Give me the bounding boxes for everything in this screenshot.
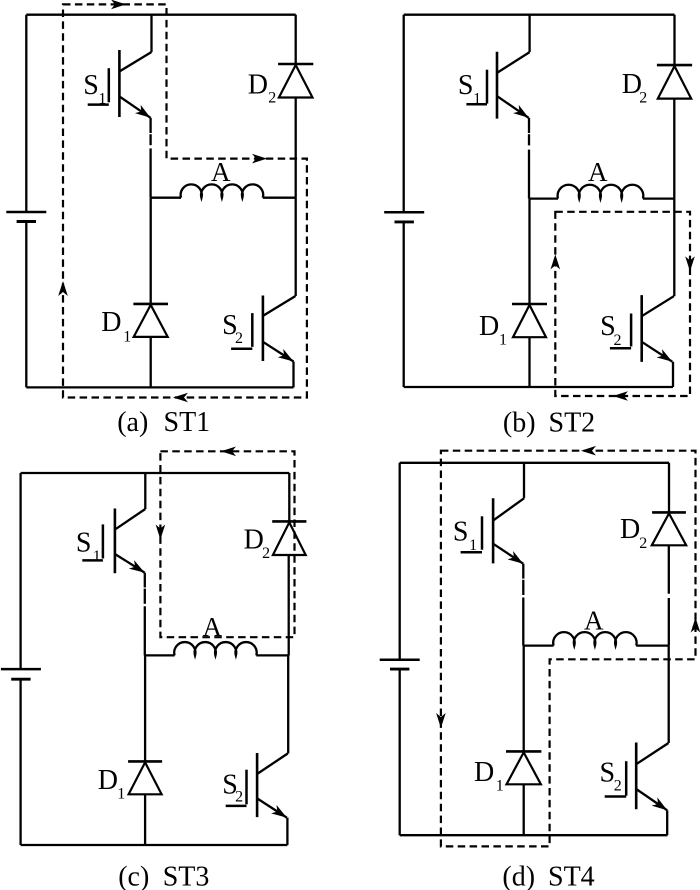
- node wire right (d): [636, 644, 669, 646]
- transistor S2 (c): [256, 753, 259, 817]
- wire D2 anode feed (c): [288, 473, 290, 521]
- transistor S2 (d): [635, 743, 638, 810]
- arrow current left top (d): [581, 446, 596, 456]
- wire left rail upper (a): [25, 15, 27, 212]
- wire D1 bottom (c): [144, 794, 146, 845]
- svg-text:1: 1: [93, 548, 101, 565]
- svg-text:ST4: ST4: [548, 862, 595, 890]
- arrow current down left (d): [436, 713, 446, 728]
- transistor S2 (b): [640, 295, 643, 362]
- battery source (d): [380, 658, 420, 661]
- wire left rail lower (b): [403, 222, 405, 387]
- transistor S2 (a): [262, 296, 265, 362]
- svg-text:S: S: [76, 527, 92, 558]
- svg-text:ST1: ST1: [164, 407, 211, 438]
- svg-text:1: 1: [117, 786, 125, 803]
- arrow current right top (a): [111, 0, 126, 9]
- current path dashed loop (c): [160, 451, 294, 637]
- wire top bus (b): [404, 14, 675, 16]
- wire D1 bottom (b): [528, 337, 530, 387]
- transistor S1 (c): [114, 509, 117, 574]
- svg-text:1: 1: [473, 90, 481, 107]
- wire left rail lower (c): [19, 679, 21, 845]
- inductor A (c): [174, 642, 256, 655]
- wire left rail lower (a): [25, 222, 27, 388]
- arrow current down right (b): [685, 256, 695, 271]
- node wire right (c): [256, 654, 289, 656]
- arrow current left bottom (b): [613, 391, 628, 401]
- wire bottom bus (d): [400, 834, 668, 836]
- arrow current up right (d): [691, 618, 700, 633]
- diode D2 (d): [652, 511, 686, 514]
- svg-text:1: 1: [499, 332, 507, 349]
- node wire left (a): [151, 197, 181, 199]
- wire D1 top (a): [150, 198, 152, 304]
- wire D2 to node (c): [288, 555, 290, 655]
- svg-text:A: A: [211, 157, 231, 187]
- diode D1 (c): [128, 760, 162, 763]
- wire bottom bus (b): [404, 386, 673, 388]
- svg-text:ST3: ST3: [163, 861, 210, 890]
- wire bottom bus (a): [26, 386, 293, 388]
- diode D1 (b): [512, 303, 547, 306]
- svg-text:2: 2: [639, 90, 647, 107]
- wire node to S2 collector (a): [295, 198, 297, 296]
- svg-text:D: D: [248, 69, 268, 100]
- svg-text:D: D: [474, 757, 494, 788]
- wire D1 top (d): [523, 646, 525, 752]
- wire S1 emitter to node (c): [144, 573, 146, 588]
- wire D2 anode feed (a): [295, 15, 297, 64]
- battery source (c): [1, 668, 41, 671]
- wire S1 collector feed (c): [144, 473, 146, 509]
- wire S2 emitter down (b): [672, 362, 674, 387]
- node wire left (c): [145, 654, 175, 656]
- wire left rail upper (d): [399, 463, 401, 660]
- svg-text:2: 2: [614, 778, 622, 795]
- arrow current right mid (a): [252, 154, 267, 164]
- battery source (b): [384, 211, 424, 214]
- wire D2 anode feed (d): [668, 463, 670, 513]
- svg-text:2: 2: [268, 90, 276, 107]
- transistor S1 (b): [496, 52, 499, 119]
- wire S1 collector feed (d): [523, 463, 525, 499]
- wire S1 collector feed (b): [528, 15, 530, 52]
- transistor S1 (a): [118, 50, 121, 117]
- current path dashed loop (a): [63, 4, 307, 397]
- svg-text:1: 1: [98, 90, 106, 107]
- wire node to S2 collector (c): [287, 655, 289, 753]
- battery source (a): [6, 211, 46, 214]
- wire top bus (c): [21, 472, 290, 474]
- wire S1 emitter to node (b): [528, 118, 530, 133]
- arrow current left top (c): [221, 447, 236, 457]
- wire D1 top (c): [144, 655, 146, 761]
- svg-text:A: A: [584, 606, 604, 636]
- wire left rail lower (d): [399, 669, 401, 835]
- wire D2 to node (b): [673, 99, 675, 199]
- arrow current up left (a): [58, 281, 68, 296]
- wire S1 emitter to node (d): [522, 564, 524, 579]
- wire D2 to node (a): [295, 98, 297, 198]
- wire left rail upper (b): [403, 15, 405, 213]
- arrow current up left (b): [551, 254, 561, 269]
- diode D1 (d): [506, 750, 541, 753]
- svg-text:D: D: [98, 765, 118, 796]
- svg-text:2: 2: [235, 789, 243, 806]
- wire node to S2 collector (d): [668, 646, 670, 743]
- wire S1 collector feed (a): [150, 15, 152, 52]
- diode D1 (a): [133, 303, 168, 306]
- diode D2 (a): [278, 63, 313, 66]
- wire S2 emitter down (a): [292, 362, 294, 388]
- svg-text:2: 2: [614, 332, 622, 349]
- node wire right (a): [263, 197, 296, 199]
- svg-text:S: S: [458, 70, 474, 101]
- wire S1 emitter to node (a): [149, 118, 151, 133]
- wire bottom bus (c): [21, 844, 288, 846]
- node wire left (d): [523, 644, 553, 646]
- svg-text:2: 2: [262, 545, 270, 562]
- svg-text:D: D: [244, 525, 264, 556]
- arrow current left bottom (a): [173, 393, 188, 403]
- svg-text:1: 1: [496, 778, 504, 795]
- wire left rail upper (c): [19, 473, 21, 669]
- svg-text:1: 1: [469, 537, 477, 554]
- svg-text:A: A: [588, 157, 608, 187]
- inductor A (d): [553, 632, 636, 646]
- svg-text:D: D: [101, 307, 121, 338]
- current path dashed loop (d): [441, 451, 696, 847]
- svg-text:D: D: [620, 514, 640, 545]
- wire top bus (d): [400, 462, 669, 464]
- wire D1 bottom (d): [523, 784, 525, 835]
- svg-text:D: D: [479, 311, 499, 342]
- svg-text:(b): (b): [503, 408, 536, 439]
- wire D1 bottom (a): [150, 337, 152, 388]
- svg-text:(c): (c): [118, 861, 149, 890]
- wire D2 anode feed (b): [673, 15, 675, 65]
- diode D2 (b): [657, 64, 692, 67]
- wire S2 emitter down (c): [286, 818, 288, 845]
- inductor A (b): [558, 185, 644, 199]
- arrow current down left (c): [156, 525, 166, 540]
- svg-text:S: S: [453, 516, 469, 547]
- svg-text:(d): (d): [502, 862, 535, 890]
- wire D1 top (b): [528, 199, 530, 304]
- wire D2 to node (d): [668, 545, 670, 593]
- svg-text:2: 2: [235, 330, 243, 347]
- transistor S1 (d): [492, 498, 495, 563]
- wire S2 emitter down (d): [666, 810, 668, 835]
- node wire right (b): [643, 197, 675, 199]
- node wire left (b): [529, 197, 558, 199]
- diode D2 (c): [272, 520, 306, 523]
- svg-text:(a): (a): [117, 407, 148, 438]
- current path dashed loop (b): [555, 212, 690, 396]
- svg-text:1: 1: [123, 329, 131, 346]
- svg-text:2: 2: [639, 535, 647, 552]
- svg-text:ST2: ST2: [549, 408, 596, 439]
- svg-text:S: S: [83, 70, 99, 101]
- inductor A (a): [181, 184, 264, 197]
- wire node to S2 collector (b): [673, 199, 675, 297]
- wire top bus (a): [26, 14, 295, 16]
